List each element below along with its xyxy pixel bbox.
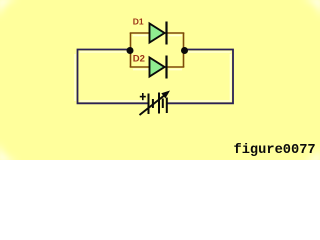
battery plate 3 (long) — [158, 93, 160, 114]
wire: node A to battery positive (left navy branch) — [78, 50, 149, 104]
battery BT1 (variable battery) — [149, 93, 167, 115]
corner fades (rounded card corners) — [0, 0, 1, 1]
wire highlight halos (ringing) — [75, 36, 231, 102]
svg-text:D2: D2 — [133, 54, 145, 65]
diode D1 — [150, 22, 167, 45]
battery plate 4 (short) — [162, 99, 164, 109]
battery polarity label + — [140, 93, 146, 100]
svg-text:figure0077: figure0077 — [234, 143, 316, 158]
wire: node B to battery negative (right navy branch) — [167, 50, 233, 104]
wire: D1 top rail — [130, 32, 185, 34]
node B (junction dot) — [181, 47, 188, 54]
wire: D2 bottom rail — [130, 66, 185, 68]
variable-adjust arrow through battery — [140, 91, 171, 116]
battery plate 5 (long) — [166, 98, 168, 114]
svg-text:D1: D1 — [133, 17, 144, 27]
wire: diode loop left vertical — [130, 33, 132, 67]
wire: diode loop right vertical — [183, 33, 185, 67]
battery plate 1 (long) — [148, 94, 150, 115]
diode D2 — [150, 56, 167, 79]
battery plate 2 (short) — [152, 99, 154, 108]
node A (junction dot) — [127, 47, 134, 54]
